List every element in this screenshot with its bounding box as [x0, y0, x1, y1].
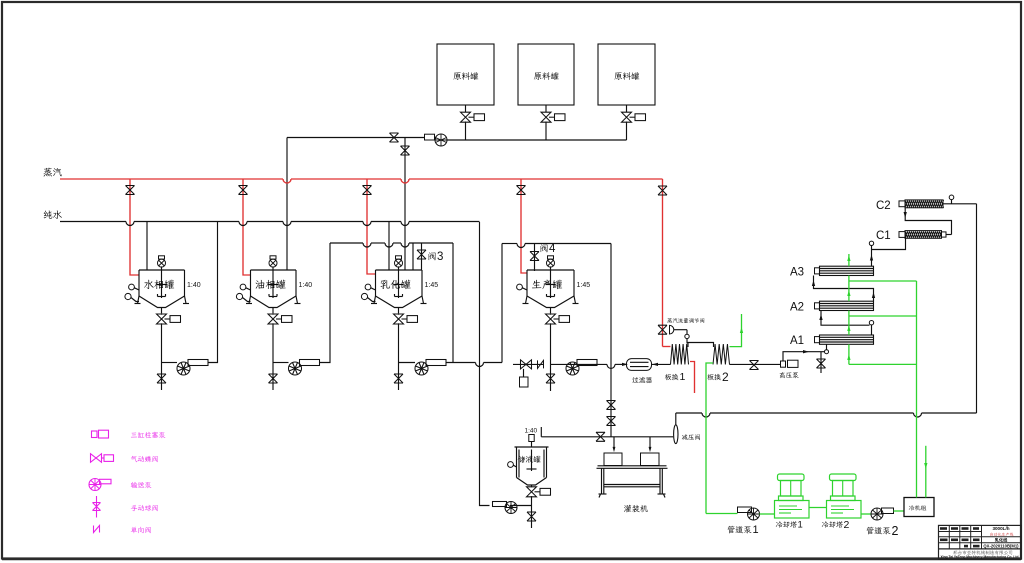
- legend plunger pump symbol: [92, 431, 98, 438]
- steam drop to oil tank (red x243): [243, 179, 251, 275]
- manual valve on steam drop x243: [239, 186, 248, 195]
- green outlet above A3: [848, 254, 850, 266]
- svg-text:乳化线: 乳化线: [995, 536, 1008, 543]
- wire C2 outlet to right loop: [943, 203, 977, 205]
- svg-text:3000L/h: 3000L/h: [992, 526, 1009, 531]
- green line coil2 to pipeline pump1: [706, 363, 713, 514]
- legend label 输送泵: [131, 482, 152, 488]
- pneumatic valve under emulsify tank: [394, 314, 404, 324]
- green line to pump1: [706, 513, 738, 515]
- green riser into A3: [848, 276, 850, 282]
- title block table: [939, 525, 1022, 559]
- green riser into A1: [848, 344, 850, 364]
- wire red jog into coil1: [663, 346, 671, 348]
- svg-text:1:45: 1:45: [425, 282, 439, 289]
- legend manual ball valve symbol: [96, 496, 98, 518]
- right loop horizontal return: [676, 412, 702, 414]
- legend label 手动球阀: [131, 505, 158, 511]
- cooling tower 冷却塔2: [827, 501, 862, 519]
- water header drop into emulsify tank: [388, 222, 390, 271]
- wire water pump discharge riser: [208, 222, 218, 363]
- buffer tank 储液罐: [515, 446, 549, 448]
- transfer drop line from line C: [610, 244, 612, 437]
- filler drop 2: [649, 437, 651, 449]
- transfer line C (emulsify->production): [502, 243, 517, 245]
- pneumatic valve under water tank: [157, 314, 167, 324]
- water phase tank 水相罐: [139, 269, 185, 271]
- red condensate drain from coil1: [690, 362, 695, 394]
- filter 过滤器: [627, 359, 652, 371]
- green stub at coil2 right: [730, 314, 742, 347]
- valve3 branch 阀3: [421, 243, 423, 270]
- green branch to A1: [849, 363, 917, 365]
- wire buffer tank outlet: [531, 496, 533, 505]
- wire raw tank 2 outlet stem: [545, 105, 547, 112]
- label 高压泵: [780, 372, 799, 378]
- transfer pump on top header: [425, 134, 435, 140]
- green riser A1->A2: [848, 316, 850, 335]
- wire oil pump discharge riser: [320, 243, 331, 363]
- wire raw tank 3 valve to header: [626, 122, 628, 141]
- green chiller riser: [916, 281, 918, 498]
- wire raw tank 1 valve to header: [465, 122, 467, 141]
- wire A2->A1 link: [821, 311, 870, 326]
- coil exchanger C2: [899, 201, 905, 207]
- line B drop into emulsify tank: [412, 243, 414, 270]
- transfer pump of oil tank: [289, 362, 302, 375]
- svg-text:1:40: 1:40: [299, 282, 313, 289]
- check valve on suction line: [538, 360, 544, 368]
- tube exchanger A3: [815, 268, 820, 274]
- transfer pump of production tank: [566, 362, 579, 375]
- label 阀3: [428, 252, 435, 260]
- pure water header: [60, 221, 126, 223]
- manual valve lower on drop: [607, 417, 616, 426]
- pipeline pump 管道泵2: [871, 508, 883, 520]
- svg-text:A1: A1: [790, 335, 804, 347]
- wire top header right segment: [447, 139, 627, 141]
- valve4 branch 阀4 into production tank: [534, 244, 536, 272]
- label 冷却塔2: [822, 521, 843, 528]
- manual valve on steam drop x130: [126, 186, 135, 195]
- label 蒸汽: [44, 168, 62, 177]
- wire oil tank tee to pump: [273, 362, 289, 364]
- legend check valve symbol: [94, 526, 100, 533]
- tube exchanger A2: [815, 303, 820, 309]
- main product line tank->filter: [551, 363, 608, 365]
- cooling tower 冷却塔1: [775, 501, 810, 519]
- legend label 气动蝶阀: [131, 456, 158, 462]
- filler header line: [541, 436, 673, 438]
- svg-text:2: 2: [722, 370, 729, 384]
- pneumatic valve under raw tank 3: [622, 112, 632, 122]
- buffer transfer pump: [493, 502, 507, 507]
- filling machine hopper 1: [604, 453, 622, 466]
- filling machine table top: [598, 465, 667, 467]
- label 冷却塔1: [776, 521, 797, 528]
- label 过滤器: [632, 377, 652, 383]
- chiller unit 冷机组: [904, 498, 934, 517]
- legend label 单向阀: [131, 527, 151, 534]
- oil phase tank 油相罐: [251, 269, 297, 271]
- pneumatic valve under production tank: [546, 314, 556, 324]
- wire raw tank 3 outlet stem: [626, 105, 628, 112]
- steam drop to water tank (red x130): [130, 179, 139, 275]
- legend pneumatic butterfly valve symbol: [91, 454, 102, 463]
- raw material tank 原料罐 2: [518, 44, 574, 105]
- svg-text:4: 4: [549, 243, 556, 255]
- pipeline pump 管道泵1: [738, 507, 752, 513]
- svg-text:1:40: 1:40: [525, 428, 538, 435]
- green branch to A3: [849, 280, 917, 282]
- filler drop 1: [613, 437, 615, 449]
- drain + manual valve under oil tank: [272, 363, 274, 391]
- vent circle on C2 outlet: [949, 195, 954, 200]
- svg-text:A2: A2: [790, 302, 804, 314]
- drain + manual valve under water tank: [161, 363, 163, 391]
- wire C1->C2 link: [946, 234, 952, 236]
- raw material tank 原料罐 1: [437, 44, 494, 105]
- label 管道泵2: [867, 527, 891, 535]
- label 管道泵1: [728, 526, 752, 534]
- coil top connector: [688, 343, 714, 348]
- svg-text:2: 2: [892, 524, 899, 538]
- manual valve on x405 branch: [401, 146, 410, 155]
- pure water drop into water tank: [146, 222, 148, 271]
- steam main drop to heat exchanger (red x662.5): [662, 179, 664, 347]
- svg-text:1: 1: [753, 524, 759, 536]
- manual valve on steam main drop: [658, 186, 667, 195]
- plate exchanger coil 板换1: [671, 344, 689, 364]
- steam flow control valve 蒸汽流量调节阀: [658, 325, 667, 334]
- label 阀4: [540, 244, 547, 252]
- wire raw tank 1 outlet stem: [465, 105, 467, 112]
- production tank 生产罐: [527, 269, 574, 271]
- coil exchanger C1: [899, 232, 905, 238]
- filling machine hopper 2: [641, 453, 660, 466]
- manual valve upper on drop: [607, 401, 616, 410]
- svg-text:2: 2: [844, 519, 850, 531]
- filling machine shelf: [604, 484, 660, 486]
- angle valve with actuator on suction line: [513, 363, 544, 365]
- tube exchanger A1: [815, 337, 820, 343]
- green tower1 to tower2: [809, 507, 827, 509]
- manual valve before high pressure pump: [750, 361, 759, 370]
- filling machine feet: [599, 493, 607, 495]
- svg-text:C2: C2: [876, 200, 891, 212]
- wire filter to plate exchanger1: [652, 363, 671, 365]
- legend transfer pump symbol: [89, 479, 101, 491]
- svg-text:A3: A3: [790, 267, 804, 279]
- label 蒸汽流量调节阀: [667, 318, 704, 323]
- transfer line B (oil->emulsify): [330, 242, 363, 244]
- right loop vertical: [976, 204, 978, 413]
- wire emulsify tank tee to pump: [399, 362, 416, 364]
- svg-text:3: 3: [437, 251, 443, 263]
- drain valve under A1 feed: [820, 352, 822, 373]
- wire top header left segment: [287, 137, 425, 139]
- manual valve on filler header: [596, 432, 605, 441]
- label 灌装机: [624, 505, 648, 513]
- raw material tank 原料罐 3: [598, 44, 655, 105]
- svg-text:1:45: 1:45: [577, 282, 591, 289]
- buffer tank gauge: [508, 462, 514, 468]
- wire coil2 to high pressure pump: [730, 363, 781, 365]
- plate exchanger coil 板换2: [713, 344, 730, 364]
- steam header (red): [60, 178, 283, 180]
- transfer pump of water tank: [177, 362, 190, 375]
- manual valve on steam drop x521: [517, 186, 526, 195]
- green stub into chiller: [925, 446, 927, 498]
- steam drop to production tank (red x521): [521, 179, 528, 273]
- legend label 三缸柱塞泵: [131, 432, 165, 438]
- svg-text:Xing Tai YaTeng Machinery Manu: Xing Tai YaTeng Machinery Manufacturing …: [940, 555, 1018, 559]
- svg-text:C1: C1: [876, 230, 891, 242]
- buffer drain + manual valve: [531, 506, 533, 529]
- svg-text:1:40: 1:40: [187, 282, 201, 289]
- label 减压阀: [682, 434, 700, 440]
- green riser into A2: [848, 311, 850, 317]
- label 纯水: [44, 210, 62, 218]
- wire buffer tee to pump: [510, 505, 532, 507]
- emulsify tank 乳化罐: [376, 269, 423, 271]
- svg-text:1: 1: [680, 371, 686, 383]
- green branch to A2: [849, 315, 917, 317]
- pneumatic valve under oil tank: [268, 314, 278, 324]
- buffer tank motor: [529, 435, 534, 442]
- wire A3->A2 link: [814, 276, 874, 302]
- wire left branch down to oil tank (x287): [286, 138, 288, 271]
- wire return riser to relief valve: [675, 413, 677, 425]
- green pump2 to chiller: [894, 510, 905, 512]
- wire emulsify pump discharge: [446, 362, 476, 364]
- wire buffer pump discharge riser (long vertical): [480, 222, 490, 506]
- drain + manual valve under emulsify tank: [398, 363, 400, 391]
- drain + manual valve under production tank: [550, 364, 552, 391]
- wire water tank tee to pump: [162, 362, 178, 364]
- pneumatic valve under raw tank 2: [541, 112, 551, 122]
- pressure reducing valve 减压阀: [674, 425, 678, 444]
- green pump1 to tower1: [760, 513, 775, 515]
- steam drop to emulsify tank (red x367): [367, 179, 376, 274]
- green tower2 to pump2: [861, 513, 871, 515]
- header left riser to buffer tank: [540, 427, 542, 437]
- wire branch down to emulsify tank (x405): [404, 138, 406, 271]
- wire pump discharge to A1: [783, 352, 825, 361]
- green riser A2->A3: [848, 281, 850, 301]
- label 板换1: [665, 374, 679, 380]
- pneumatic valve under buffer tank: [527, 487, 537, 497]
- pneumatic valve under raw tank 1: [461, 112, 471, 122]
- label 板换2: [707, 374, 721, 380]
- high pressure pump 高压泵: [781, 361, 786, 367]
- manual valve on steam drop x367: [363, 186, 372, 195]
- manual valve on top header: [390, 133, 399, 142]
- transfer pump of emulsify tank: [415, 362, 428, 375]
- wire A3->C1 link: [871, 246, 873, 267]
- filling machine legs: [601, 468, 603, 494]
- wire raw tank 2 valve to header: [545, 122, 547, 141]
- svg-text:QX-2020110B(M1): QX-2020110B(M1): [983, 544, 1019, 549]
- svg-text:1: 1: [798, 520, 803, 531]
